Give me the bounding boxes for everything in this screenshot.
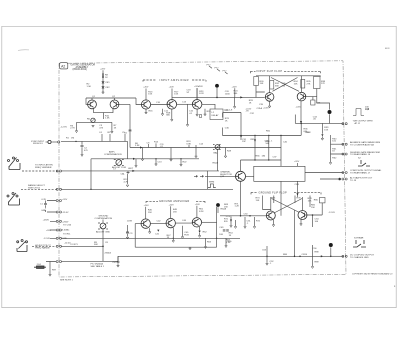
svg-text:CR1: CR1	[105, 82, 110, 84]
section label GROUND AMPLIFIER	[146, 201, 205, 203]
svg-text:R62A: R62A	[213, 161, 219, 164]
svg-text:1.5K: 1.5K	[105, 118, 110, 120]
svg-text:15K: 15K	[148, 212, 152, 214]
svg-text:TO J8: TO J8	[350, 180, 357, 182]
capacitor C40	[280, 136, 282, 167]
svg-text:2N404: 2N404	[105, 253, 112, 255]
wire emitter Q6 + ground	[269, 101, 271, 105]
svg-text:+20V: +20V	[198, 86, 204, 88]
capacitor C57	[117, 256, 120, 265]
section label INPUT FLIP FLOP	[251, 71, 321, 73]
svg-text:15K: 15K	[260, 83, 264, 85]
wire	[205, 160, 241, 216]
capacitor C52A	[266, 246, 268, 256]
svg-text:CR9: CR9	[295, 184, 300, 186]
capacitor C1	[44, 201, 47, 208]
section label GROUND FLIP FLOP	[251, 192, 321, 194]
coax jack J1	[46, 140, 54, 143]
wire cross-coupling	[270, 76, 302, 93]
wire vertical to CAL	[127, 141, 129, 158]
wire	[202, 104, 241, 135]
capacitor C2A	[45, 207, 47, 212]
capacitor C13A + ground	[155, 159, 157, 164]
diode CR8B	[199, 231, 201, 233]
transistor Q5	[192, 100, 202, 110]
transistor Q11	[266, 211, 275, 220]
svg-text:FREQ RANGE: FREQ RANGE	[35, 246, 50, 249]
svg-text:+250V: +250V	[62, 221, 69, 223]
wire emitter Q5	[196, 109, 198, 114]
svg-text:15K: 15K	[294, 83, 298, 85]
switch S3	[17, 240, 28, 252]
svg-text:INPUT AMPLIFIER: INPUT AMPLIFIER	[160, 78, 190, 82]
wire	[246, 163, 298, 186]
resistor R73	[262, 196, 264, 210]
transistor Q4	[167, 100, 177, 110]
svg-text:+20V: +20V	[169, 87, 175, 89]
rear switch annotation 2	[353, 240, 366, 247]
transistor Q6	[265, 93, 274, 102]
wire	[102, 70, 104, 92]
svg-text:CR10: CR10	[302, 254, 308, 256]
svg-text:COMPENSATION: COMPENSATION	[95, 217, 113, 220]
svg-text:FDB: FDB	[184, 234, 189, 236]
svg-text:DELAY: DELAY	[212, 114, 220, 117]
bottom long bus	[61, 256, 331, 261]
diode CR1	[102, 82, 105, 84]
wire long bus	[61, 159, 233, 190]
relay box K1	[254, 166, 305, 181]
resistor R79	[309, 196, 311, 208]
svg-text:1000: 1000	[225, 93, 231, 95]
resistor R7	[111, 122, 113, 131]
wire pin feed	[61, 245, 103, 247]
svg-text:27K: 27K	[307, 83, 311, 85]
wire box bottom drop	[280, 181, 282, 216]
input bus wire	[61, 140, 128, 142]
resistor R51	[196, 206, 198, 218]
svg-text:SEE NOTE 1: SEE NOTE 1	[60, 279, 74, 281]
svg-text:+20V: +20V	[143, 87, 149, 89]
capacitor C2	[81, 141, 84, 154]
junction feedthrough dot	[215, 84, 219, 88]
wire dashed	[21, 188, 58, 190]
svg-text:3.9K: 3.9K	[135, 145, 140, 147]
transistor Q7	[297, 92, 306, 101]
wire coil drive	[241, 159, 282, 161]
wire dot drop	[216, 207, 218, 247]
wire	[321, 123, 323, 133]
svg-text:(05100-6012): (05100-6012)	[73, 68, 88, 71]
svg-text:1M: 1M	[71, 137, 74, 139]
svg-text:S3 REAR: S3 REAR	[354, 237, 364, 240]
svg-text:15K: 15K	[173, 211, 177, 213]
wire	[77, 121, 112, 123]
capacitor C6	[129, 130, 132, 131]
connector pin	[56, 188, 61, 190]
svg-text:FREQ VERNIER: FREQ VERNIER	[35, 167, 52, 169]
junction feedthrough dot	[328, 110, 332, 114]
resistor R30 box	[254, 77, 258, 86]
svg-text:-0.6V: -0.6V	[296, 107, 302, 109]
svg-text:1.5K: 1.5K	[87, 86, 92, 88]
svg-text:C31A: C31A	[257, 107, 263, 110]
svg-text:+20V: +20V	[62, 199, 68, 201]
svg-text:TO CHASSIS GND: TO CHASSIS GND	[350, 256, 369, 259]
wire collector bus Q1/Q2	[86, 98, 141, 148]
svg-text:15K: 15K	[324, 129, 328, 131]
resistor R38 box	[314, 77, 321, 89]
wire Q10 right	[202, 221, 217, 223]
resistor R13	[145, 89, 147, 101]
wire emitter Q7	[300, 101, 302, 123]
resistor R80 box	[320, 198, 326, 203]
transistor Q1	[88, 100, 97, 109]
svg-text:15K: 15K	[308, 200, 312, 202]
resistor R53	[205, 238, 207, 246]
svg-text:A2: A2	[61, 64, 65, 68]
svg-text:+20V: +20V	[195, 204, 201, 206]
svg-text:15K: 15K	[256, 200, 260, 202]
resistor R34 box	[301, 80, 305, 89]
power entry pins	[56, 200, 61, 202]
wire	[234, 88, 236, 97]
connector pin	[58, 141, 60, 143]
svg-text:WFM: WFM	[209, 182, 214, 184]
svg-text:15K: 15K	[148, 94, 152, 96]
channel selector transistor Q13	[236, 171, 246, 181]
svg-text:+20V: +20V	[144, 205, 150, 207]
wire emitters	[273, 220, 275, 225]
svg-text:8.2K: 8.2K	[199, 211, 204, 213]
ground	[102, 92, 104, 94]
diode CR2B	[140, 146, 142, 148]
wire Q11 collector down	[294, 210, 296, 256]
wire emitter join	[94, 108, 114, 119]
wire taps	[207, 149, 217, 189]
black feedthrough dot	[329, 243, 333, 247]
svg-text:COMPENSATION: COMPENSATION	[104, 153, 122, 156]
svg-text:COPYRIGHT 1962 BY HEWLETT-PACK: COPYRIGHT 1962 BY HEWLETT-PACKARD CO	[352, 273, 393, 276]
svg-text:TO COUNTER ASSY A3: TO COUNTER ASSY A3	[350, 144, 375, 147]
svg-text:+250V: +250V	[43, 220, 50, 222]
top rail wire	[256, 75, 321, 78]
resistor R26 + ground	[204, 109, 206, 114]
svg-text:1.2K: 1.2K	[235, 206, 240, 208]
waveform annotation	[353, 108, 369, 116]
svg-text:FROM S1: FROM S1	[33, 143, 44, 145]
resistor R18 + ground	[171, 109, 173, 119]
svg-text:TO R73: TO R73	[70, 244, 78, 246]
wire to pins	[331, 144, 344, 154]
diode CR2A	[133, 158, 135, 160]
diode CR3	[240, 96, 242, 98]
svg-text:+20V: +20V	[306, 132, 312, 134]
junction	[217, 147, 218, 148]
wire compensation bus	[91, 158, 199, 160]
trimmer R6	[91, 118, 95, 122]
wire	[46, 262, 56, 268]
wire C10 coupling	[151, 104, 167, 106]
wire	[295, 114, 343, 123]
switch S1A	[8, 157, 21, 170]
diode CR2	[102, 87, 105, 89]
waveform mark	[208, 184, 216, 188]
svg-text:+20V: +20V	[294, 161, 300, 163]
resistor R88	[312, 245, 314, 266]
left parts	[231, 217, 255, 226]
switch S1B	[7, 193, 20, 206]
diode CR6	[300, 121, 302, 123]
resistor R78	[294, 196, 296, 204]
wire C13 coupling	[177, 103, 193, 105]
diode CR5	[254, 135, 256, 160]
svg-text:-12.6V: -12.6V	[64, 242, 71, 244]
resistor R22 + ground	[180, 159, 182, 164]
connector pin	[56, 170, 61, 172]
grounds below row	[149, 228, 151, 231]
emitter bus	[135, 246, 216, 248]
junction	[75, 141, 76, 142]
svg-text:8.2K: 8.2K	[199, 93, 204, 95]
wire	[172, 88, 265, 100]
assembly boundary A2 (dash-dot)	[59, 61, 346, 277]
resistor R3	[76, 122, 78, 130]
wire	[330, 247, 332, 256]
capacitor C28 box	[311, 100, 315, 105]
svg-text:TO R11: TO R11	[63, 234, 71, 236]
svg-text:02-3: 02-3	[385, 48, 390, 50]
svg-text:TO REAR PANEL J6: TO REAR PANEL J6	[350, 153, 371, 156]
wire to output pin	[305, 172, 343, 174]
diode CR8A	[157, 230, 159, 232]
sync arrows	[194, 175, 203, 177]
svg-text:P-P: P-P	[365, 109, 369, 111]
svg-text:AT J2: AT J2	[355, 122, 361, 125]
resistor R8	[102, 74, 104, 78]
section label INPUT AMPLIFIER	[143, 80, 206, 82]
svg-text:TO C7A: TO C7A	[63, 223, 71, 226]
svg-text:+0.6V: +0.6V	[263, 107, 269, 109]
svg-text:SEE TABLE 1: SEE TABLE 1	[91, 265, 105, 268]
svg-text:LEFT: LEFT	[128, 168, 134, 170]
resistor R55	[225, 238, 227, 245]
wire	[102, 220, 104, 262]
resistor R64	[268, 135, 270, 160]
resistor R99	[49, 268, 51, 275]
svg-text:+20V: +20V	[46, 230, 52, 232]
trimmer C6	[116, 160, 122, 166]
wire aux output	[320, 178, 338, 180]
trimmer R27	[215, 145, 220, 150]
svg-text:+20V: +20V	[232, 86, 238, 88]
transistor Q3	[141, 100, 150, 109]
svg-text:2.7K: 2.7K	[70, 128, 75, 130]
resistor R45	[145, 207, 147, 219]
wire trigger line	[223, 113, 302, 136]
wire Q12 right	[307, 203, 322, 227]
ground	[111, 131, 113, 133]
svg-text:1.5K: 1.5K	[226, 242, 231, 244]
svg-text:GROUND FLIP FLOP: GROUND FLIP FLOP	[259, 190, 287, 194]
rear switch annotation 1	[358, 160, 370, 166]
transistor Q8	[141, 219, 150, 228]
resistor R28 + ground	[225, 148, 227, 156]
resistor R15 + ground	[170, 148, 172, 160]
svg-text:-12.6V: -12.6V	[61, 126, 68, 128]
svg-text:15K: 15K	[174, 94, 178, 96]
resistor R60	[330, 135, 332, 162]
svg-text:56K: 56K	[275, 85, 279, 87]
svg-text:R62A: R62A	[221, 208, 227, 211]
svg-text:TO REAR PANEL J7: TO REAR PANEL J7	[350, 172, 371, 175]
resistor R16 + ground	[145, 109, 147, 112]
svg-text:ADJUST SYM: ADJUST SYM	[112, 166, 126, 169]
ground	[92, 125, 94, 127]
svg-text:GROUND AMPLIFIER: GROUND AMPLIFIER	[159, 199, 190, 203]
capacitor C49	[223, 230, 229, 231]
resistor R48	[170, 206, 172, 218]
svg-text:P/O: P/O	[215, 67, 219, 69]
ground stub	[234, 97, 236, 106]
output pin bottom right	[342, 255, 347, 257]
svg-text:-12.6V: -12.6V	[62, 212, 69, 214]
resistor R6B + ground	[142, 148, 144, 159]
pencil smudge	[18, 49, 29, 52]
wire coupling C46	[175, 222, 192, 224]
svg-text:P/O: P/O	[207, 64, 211, 66]
capacitor C9A	[126, 232, 129, 237]
capacitor C52	[266, 256, 268, 263]
connector pin (2)	[342, 123, 347, 125]
wire	[306, 89, 330, 110]
ground	[75, 131, 77, 133]
svg-text:INPUT FLIP FLOP: INPUT FLIP FLOP	[257, 69, 283, 73]
junction feedthrough dot mid	[216, 203, 220, 207]
svg-text:27K: 27K	[321, 83, 325, 85]
transistor Q2	[110, 100, 119, 109]
capacitor C12 + ground	[162, 109, 164, 114]
transistor Q12	[298, 211, 307, 220]
wire	[217, 207, 219, 213]
wire coupling C42	[150, 223, 166, 225]
wire -12.6V rail	[61, 237, 240, 239]
resistor R21 + ground	[187, 104, 189, 124]
svg-text:-12.6V: -12.6V	[329, 212, 336, 214]
delay line box DL1	[210, 109, 223, 120]
wire base feed	[135, 224, 141, 248]
transistor Q10	[192, 218, 201, 227]
resistor R17	[171, 89, 173, 101]
diode CR7	[321, 134, 323, 136]
svg-text:15P: 15P	[242, 141, 246, 143]
ground	[135, 159, 137, 165]
svg-text:CR2: CR2	[105, 87, 110, 89]
diode CR2C	[132, 170, 134, 172]
svg-text:56K: 56K	[94, 244, 98, 246]
wire dashed	[32, 245, 56, 247]
svg-text:CR5: CR5	[250, 139, 255, 141]
wire cross-coupling	[263, 197, 303, 213]
svg-text:P/O: P/O	[223, 70, 227, 72]
top-right annotation arrows	[209, 66, 228, 74]
wire mid bus	[61, 170, 219, 172]
svg-text:-3V: -3V	[245, 111, 249, 113]
wire dashed	[22, 170, 58, 172]
svg-text:6.3VAC: 6.3VAC	[62, 229, 70, 232]
svg-text:+20V: +20V	[169, 204, 175, 206]
svg-text:15K: 15K	[311, 207, 315, 209]
resistor R32 box	[270, 81, 274, 90]
A2 reference box	[60, 63, 68, 69]
diode CR9 stub	[297, 186, 299, 197]
wire base feed left	[220, 215, 266, 217]
transistor Q9	[166, 218, 175, 227]
second bus wire	[130, 147, 281, 149]
wire	[53, 141, 58, 143]
wire pin stubs	[47, 201, 56, 239]
svg-text:-12.6V: -12.6V	[44, 238, 51, 240]
resistor R75	[273, 196, 275, 204]
junction dots	[266, 255, 268, 257]
resistor R23	[196, 88, 198, 100]
